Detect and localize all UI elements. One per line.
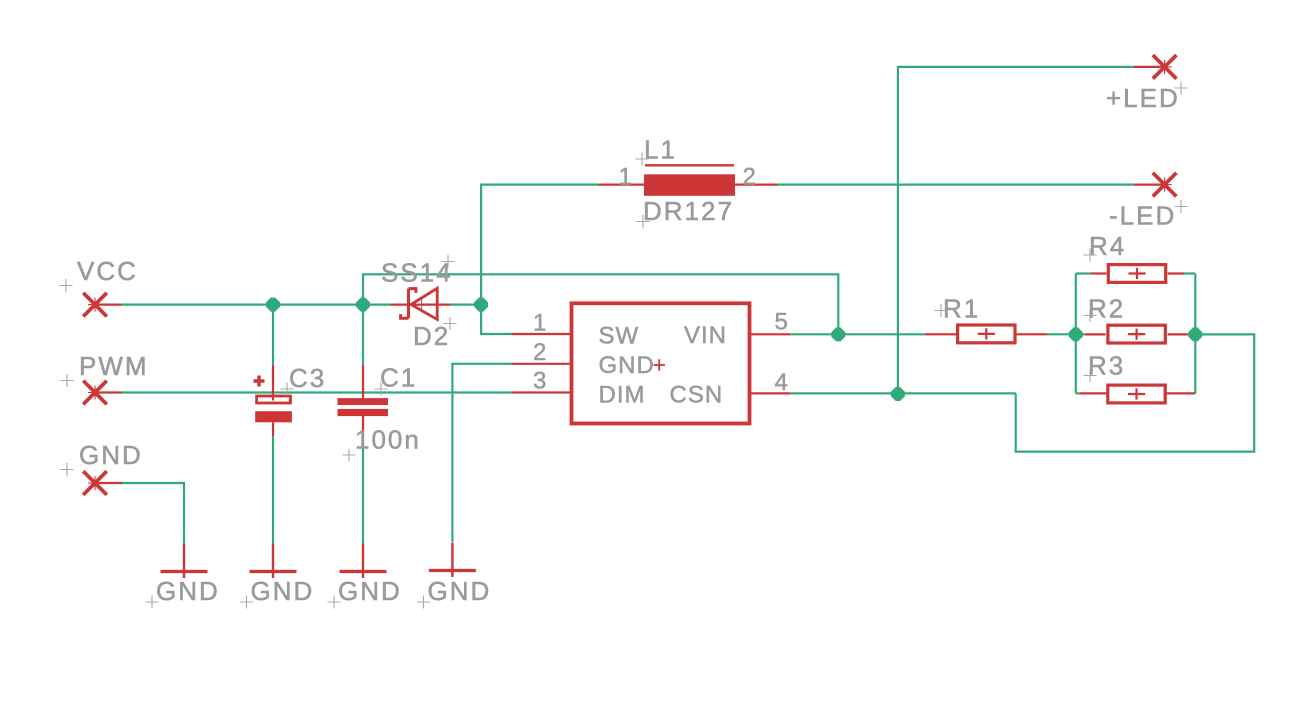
svg-text:GND: GND [156,576,220,606]
svg-text:DIM: DIM [599,382,646,409]
svg-text:1: 1 [533,310,547,337]
svg-text:PWM: PWM [79,351,149,381]
svg-text:SW: SW [599,323,640,350]
svg-text:L1: L1 [644,135,677,165]
svg-text:CSN: CSN [670,382,724,409]
svg-text:R1: R1 [943,294,980,324]
svg-text:5: 5 [775,309,789,336]
svg-text:D2: D2 [413,321,450,351]
svg-text:DR127: DR127 [643,196,734,226]
svg-text:GND: GND [599,352,655,379]
svg-text:C1: C1 [380,363,417,393]
svg-text:+LED: +LED [1106,83,1180,113]
svg-text:GND: GND [79,440,143,470]
svg-text:C3: C3 [289,363,326,393]
svg-text:2: 2 [743,164,757,191]
svg-text:3: 3 [533,368,547,395]
svg-text:GND: GND [338,576,402,606]
svg-text:R4: R4 [1089,231,1126,261]
svg-text:R2: R2 [1088,294,1125,324]
svg-text:GND: GND [251,576,315,606]
svg-text:2: 2 [533,339,547,366]
svg-text:VIN: VIN [684,322,727,349]
svg-text:100n: 100n [355,425,421,455]
svg-text:VCC: VCC [77,256,138,286]
svg-text:GND: GND [428,576,492,606]
svg-text:4: 4 [775,369,789,396]
svg-text:1: 1 [619,164,633,191]
svg-text:-LED: -LED [1109,201,1176,231]
